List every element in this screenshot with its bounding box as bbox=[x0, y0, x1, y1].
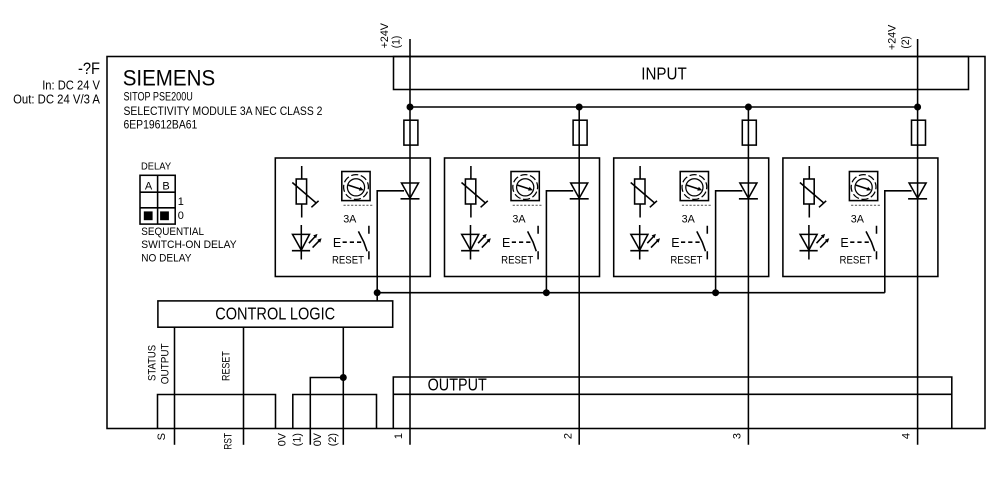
svg-text:RESET: RESET bbox=[220, 351, 232, 381]
svg-text:0V: 0V bbox=[276, 432, 288, 446]
svg-text:1: 1 bbox=[178, 196, 184, 208]
svg-text:2: 2 bbox=[562, 433, 574, 439]
svg-text:NO DELAY: NO DELAY bbox=[141, 253, 192, 265]
svg-text:(1): (1) bbox=[391, 36, 403, 49]
svg-text:CONTROL LOGIC: CONTROL LOGIC bbox=[215, 304, 335, 324]
svg-text:OUTPUT: OUTPUT bbox=[160, 343, 172, 384]
svg-text:S: S bbox=[156, 433, 168, 440]
svg-text:6EP19612BA61: 6EP19612BA61 bbox=[124, 120, 198, 132]
svg-text:Out: DC 24 V/3 A: Out: DC 24 V/3 A bbox=[13, 91, 100, 106]
svg-text:+24V: +24V bbox=[886, 24, 898, 50]
svg-text:+24V: +24V bbox=[379, 22, 391, 48]
svg-text:B: B bbox=[162, 180, 169, 192]
svg-text:A: A bbox=[145, 180, 153, 192]
svg-text:SITOP PSE200U: SITOP PSE200U bbox=[124, 92, 193, 104]
svg-text:In: DC 24 V: In: DC 24 V bbox=[42, 77, 100, 92]
svg-text:0: 0 bbox=[178, 210, 184, 222]
svg-text:OUTPUT: OUTPUT bbox=[428, 375, 487, 395]
svg-text:SEQUENTIAL: SEQUENTIAL bbox=[141, 226, 204, 238]
svg-text:SIEMENS: SIEMENS bbox=[123, 65, 216, 90]
svg-text:INPUT: INPUT bbox=[641, 63, 687, 83]
svg-text:STATUS: STATUS bbox=[147, 345, 159, 381]
svg-text:SWITCH-ON DELAY: SWITCH-ON DELAY bbox=[141, 239, 237, 251]
svg-text:0V: 0V bbox=[312, 432, 324, 446]
svg-text:DELAY: DELAY bbox=[141, 162, 171, 173]
svg-text:(2): (2) bbox=[327, 433, 339, 446]
svg-text:(1): (1) bbox=[291, 433, 303, 446]
svg-text:1: 1 bbox=[393, 433, 405, 439]
svg-text:(2): (2) bbox=[900, 36, 912, 49]
svg-text:RST: RST bbox=[223, 433, 235, 450]
svg-text:-?F: -?F bbox=[78, 59, 100, 78]
svg-text:SELECTIVITY MODULE 3A NEC CLAS: SELECTIVITY MODULE 3A NEC CLASS 2 bbox=[124, 106, 323, 118]
svg-text:4: 4 bbox=[901, 433, 913, 439]
svg-text:3: 3 bbox=[732, 433, 744, 439]
